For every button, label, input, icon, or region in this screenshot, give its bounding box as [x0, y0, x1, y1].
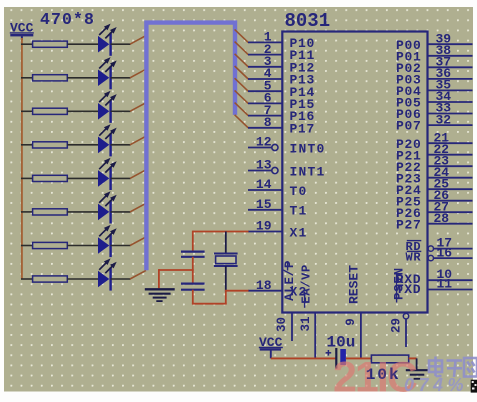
wire R2 to LED D2 [67, 77, 98, 79]
pin 30 stub [291, 313, 293, 342]
pin 22 P21 [428, 154, 473, 156]
svg-text:X1: X1 [290, 225, 308, 240]
wire R7 to LED D7 [67, 245, 98, 247]
wire rail to resistor R2 [21, 77, 33, 79]
capacitor C2 [181, 284, 205, 290]
pin 32 P07 [428, 124, 473, 126]
pin 18 X2 [248, 290, 283, 292]
wire C1 to gnd node [192, 257, 194, 284]
wire VCC rail vertical [21, 38, 23, 279]
pin 27 P26 [428, 211, 473, 213]
pin 17 RD [405, 236, 472, 254]
svg-text:29: 29 [389, 318, 403, 333]
wire bus to pin 3 [235, 54, 249, 67]
pin 31 EA/VP label [300, 264, 314, 308]
LED D3 [98, 91, 117, 123]
svg-text:PSEN: PSEN [393, 267, 407, 300]
wire rail to resistor R8 [21, 278, 33, 280]
pin 12 INT0 [248, 147, 272, 149]
pin 5 P14 [248, 90, 283, 92]
svg-text:INT1: INT1 [290, 164, 326, 179]
svg-text:T1: T1 [290, 204, 308, 219]
pin 10 RXD [396, 267, 473, 287]
LED D7 [98, 225, 117, 257]
pin 15 T1 [248, 209, 283, 211]
pin 7 P16 [248, 115, 283, 117]
pin 25 P24 [428, 188, 473, 190]
capacitor C3 10u [326, 334, 356, 369]
pin 26 P25 [428, 200, 473, 202]
svg-text:RESET: RESET [347, 265, 362, 304]
watermark chinese chars [429, 357, 477, 378]
pin 9 stub [360, 313, 362, 359]
resistor R8 [33, 276, 68, 282]
svg-text:19: 19 [256, 219, 272, 234]
crystal Y1 [214, 254, 238, 267]
LED D6 [98, 191, 117, 223]
wire C2 to X2 net [192, 290, 194, 304]
svg-text:18: 18 [256, 278, 272, 293]
wire rail to resistor R1 [21, 43, 33, 45]
pin 37 P02 [428, 66, 473, 68]
pin 13 INT1 [248, 170, 272, 172]
LED D5 [98, 158, 117, 190]
svg-text:28: 28 [434, 211, 450, 226]
svg-text:8: 8 [264, 115, 272, 130]
svg-text:P27: P27 [396, 217, 422, 232]
LED D8 [98, 258, 117, 290]
wire R9 to ground [409, 357, 417, 359]
resistor R3 [33, 108, 68, 114]
svg-text:8031: 8031 [285, 10, 331, 32]
wire bus to pin 4 [235, 66, 249, 79]
svg-text:11: 11 [437, 277, 453, 292]
pin 31 stub [314, 313, 316, 359]
pin 36 P03 [428, 78, 473, 80]
wire R4 to LED D4 [67, 144, 98, 146]
pin 29 stub [403, 314, 408, 319]
pin 38 P01 [428, 55, 473, 57]
svg-text:30: 30 [275, 317, 289, 332]
node X1 net wire [193, 231, 249, 233]
resistor R1 [33, 41, 68, 47]
wire LED D8 to bus [111, 278, 131, 280]
pin 30 ALE/P label [283, 260, 297, 301]
wire rail to resistor R3 [21, 110, 33, 112]
wire R3 to LED D3 [67, 110, 98, 112]
svg-text:P17: P17 [290, 121, 316, 136]
pin 39 P00 [428, 43, 473, 45]
wire rail to resistor R6 [21, 211, 33, 213]
wire bus to pin 5 [235, 78, 249, 91]
wire bus to pin 7 [235, 103, 249, 116]
svg-text:32: 32 [436, 112, 452, 127]
pin 28 P27 [428, 223, 473, 225]
wire LED D3 to bus [111, 110, 131, 112]
wire LED D5 to bus [111, 177, 131, 179]
wire C3 to R9 [346, 357, 372, 359]
LED D1 [98, 24, 117, 56]
svg-text:14: 14 [256, 177, 272, 192]
pin 29 PSEN label [393, 267, 407, 302]
pin 35 P04 [428, 89, 473, 91]
svg-text:9: 9 [344, 318, 358, 326]
pin 23 P22 [428, 165, 473, 167]
wire rail to resistor R5 [21, 177, 33, 179]
wire rail to resistor R7 [21, 245, 33, 247]
pin 33 P06 [428, 113, 473, 115]
wire LED D7 to bus [111, 245, 131, 247]
pin 21 P20 [428, 142, 473, 144]
svg-text:T0: T0 [290, 184, 308, 199]
pin 8 P17 [248, 127, 283, 129]
svg-text:13: 13 [256, 158, 272, 173]
capacitor C1 [181, 252, 205, 257]
resistor R2 [33, 75, 68, 81]
wire crystal to X2 [225, 266, 227, 292]
power VCC (bottom) [259, 335, 283, 359]
svg-text:16: 16 [437, 245, 453, 260]
wire R1 to LED D1 [67, 43, 98, 45]
svg-text:INT0: INT0 [290, 141, 326, 156]
svg-text:10u: 10u [327, 334, 356, 352]
svg-text:10k: 10k [366, 366, 401, 384]
pin 19 X1 [248, 231, 283, 233]
ground (crystal) [145, 289, 175, 301]
resistor R7 [33, 242, 68, 248]
resistor R5 [33, 175, 68, 181]
pin 34 P05 [428, 101, 473, 103]
svg-text:15: 15 [256, 197, 272, 212]
wire bus to pin 2 [235, 42, 249, 55]
svg-text:WR: WR [405, 250, 421, 264]
svg-text:470*8: 470*8 [40, 10, 95, 29]
pin 1 P10 [248, 41, 283, 43]
power rail VCC [10, 20, 34, 40]
LED D2 [98, 57, 117, 89]
resistor R9 10k [371, 355, 408, 363]
wire R5 to LED D5 [67, 177, 98, 179]
LED D4 [98, 124, 117, 156]
pin 16 WR [405, 245, 472, 264]
svg-text:EA/VP: EA/VP [300, 264, 314, 304]
wire VCC to C3 [271, 357, 336, 359]
wire rail to resistor R4 [21, 144, 33, 146]
pin 2 P11 [248, 54, 283, 56]
icon black square [471, 380, 477, 393]
resistor R4 [33, 142, 68, 148]
wire R8 to LED D8 [67, 278, 98, 280]
wire bus to pin 8 [235, 115, 249, 128]
pin 24 P23 [428, 177, 473, 179]
wire LED D4 to bus [111, 144, 131, 146]
pin 6 P15 [248, 102, 283, 104]
pin 14 T0 [248, 189, 283, 191]
svg-text:074%: 074% [404, 375, 468, 395]
wire LED D1 to bus [111, 43, 131, 45]
wire LED D2 to bus [111, 77, 131, 79]
svg-text:ALE/P: ALE/P [283, 260, 297, 301]
bus (blue) [146, 23, 235, 271]
resistor R6 [33, 209, 68, 215]
microcontroller U1 8031 [282, 32, 427, 313]
wire R6 to LED D6 [67, 211, 98, 213]
svg-text:P07: P07 [396, 119, 422, 134]
wire LED D6 to bus [111, 211, 131, 213]
pin 4 P13 [248, 78, 283, 80]
wire bus to pin 1 [235, 29, 249, 42]
pin 11 TXD [396, 277, 473, 297]
svg-text:31: 31 [299, 316, 313, 331]
wire bus to pin 6 [235, 90, 249, 103]
ground (reset) [406, 358, 428, 378]
pin 3 P12 [248, 66, 283, 68]
svg-text:12: 12 [256, 135, 272, 150]
